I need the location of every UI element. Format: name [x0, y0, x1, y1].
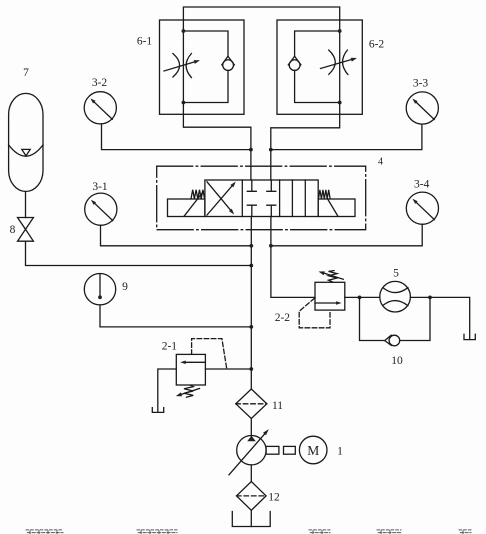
- main tank symbol: [232, 512, 270, 527]
- wire: gauge 3-3 to node B: [271, 124, 422, 150]
- svg-text:3-2: 3-2: [92, 77, 108, 89]
- spring right of valve 4: [319, 190, 331, 199]
- solenoid directional valve 4: chain-line enclosure: [157, 166, 366, 230]
- label 4: [378, 157, 383, 168]
- wire: bypass branch up-right: [400, 297, 430, 340]
- check valve in 6-1 (seat + ball): [222, 56, 235, 70]
- svg-text:2-1: 2-1: [162, 341, 178, 353]
- wire: bypass branch down-left: [360, 297, 385, 340]
- svg-text:M: M: [307, 443, 319, 458]
- variable displacement pump: [229, 429, 269, 475]
- solenoid left of valve 4: [168, 192, 205, 217]
- svg-text:11: 11: [272, 400, 283, 412]
- tank symbol right: [464, 334, 475, 339]
- junction dots 6-2: [338, 29, 342, 104]
- wire: gauge 3-2 to node A: [102, 124, 251, 150]
- wire: 2-1 outlet to tank: [158, 369, 177, 412]
- filter 11: [236, 389, 267, 419]
- pressure gauge 3-3: [406, 92, 438, 124]
- valve 4 left position: crossed arrows: [207, 182, 236, 215]
- node A junction dot: [249, 148, 253, 152]
- caption text (clipped at page bottom): [26, 530, 471, 534]
- junction dots on P line: [249, 244, 253, 371]
- wire: filter 12 suction into tank: [250, 510, 252, 526]
- label 6-2: [369, 39, 385, 51]
- wire: gauge 3-1 to P line: [101, 225, 252, 246]
- svg-text:2-2: 2-2: [275, 312, 291, 324]
- label 5: [393, 268, 399, 280]
- wire: 2-1 inlet from P line: [205, 368, 251, 370]
- check valve in 6-2 (seat + ball): [288, 56, 301, 70]
- spring of valve 2-2: [319, 271, 344, 282]
- label 3-1: [92, 181, 108, 193]
- svg-text:4: 4: [378, 157, 383, 168]
- throttle valve 6-1 (adjustable, two arcs + arrow): [164, 54, 200, 78]
- valve 4 right position: straight-through strips: [292, 180, 305, 217]
- coupling pump-motor: [266, 446, 295, 454]
- svg-text:6-1: 6-1: [137, 36, 153, 48]
- svg-text:9: 9: [122, 281, 128, 293]
- svg-text:10: 10: [391, 355, 403, 367]
- label 7: [23, 67, 29, 79]
- wire: flow meter to right tank drop: [410, 297, 469, 339]
- label 1: [337, 446, 343, 458]
- wire: 2-2 outlet to flow meter: [345, 296, 380, 298]
- one-way throttle (speed control) valve 6-2 enclosure box: [277, 20, 362, 114]
- label 3-4: [414, 179, 430, 191]
- tank symbol under valve 2-1: [152, 408, 163, 413]
- svg-text:5: 5: [393, 268, 399, 280]
- relief valve 2-1 body: [176, 354, 205, 385]
- valve 4 body: three position squares: [205, 180, 318, 217]
- pilot line (dashed) of valve 2-1: [192, 339, 227, 369]
- svg-text:7: 7: [23, 67, 29, 79]
- wire: 6-1 throttle branch vertical: [182, 31, 184, 103]
- flow meter 5: [380, 281, 411, 312]
- wire: T line from valve port down then right to valve 2-2: [271, 217, 315, 298]
- label 2-2: [275, 312, 291, 324]
- svg-text:6-2: 6-2: [369, 39, 385, 51]
- one-way throttle (speed control) valve 6-1 enclosure box: [160, 20, 245, 114]
- wire: filter 11 to pump: [250, 419, 252, 437]
- wire: gauge 9 to P line: [100, 305, 251, 327]
- svg-text:8: 8: [10, 224, 16, 236]
- svg-text:3-1: 3-1: [92, 181, 108, 193]
- svg-text:3-4: 3-4: [414, 179, 430, 191]
- label 10: [391, 355, 403, 367]
- pressure gauge 3-4: [406, 192, 438, 224]
- svg-text:3-3: 3-3: [413, 78, 429, 90]
- wire: 6-2 bottom to valve port B: [271, 103, 340, 181]
- spring of valve 2-1: [176, 385, 200, 397]
- wire: pump to filter 12: [250, 465, 252, 482]
- label 3-2: [92, 77, 108, 89]
- wire: 6-1 bottom to valve port A: [183, 103, 251, 181]
- wire: 6-2 throttle branch vertical: [339, 31, 341, 103]
- svg-text:12: 12: [268, 492, 280, 504]
- check valve 10 (seat + ball): [385, 335, 400, 346]
- shut-off valve 8: [18, 218, 34, 242]
- node B junction dot: [269, 148, 273, 152]
- wire: valve 8 to P line: [26, 241, 252, 265]
- label 12: [268, 492, 280, 504]
- label 2-1: [162, 341, 178, 353]
- pressure gauge 3-1: [85, 193, 117, 225]
- label 8: [10, 224, 16, 236]
- junction dots 6-1: [182, 29, 186, 104]
- wire: 6-1 check-valve branch: [183, 31, 228, 103]
- filter 12: [237, 482, 267, 511]
- gauge 9: [84, 274, 115, 305]
- pressure gauge 3-2: [84, 92, 116, 124]
- valve 4 centre position: blocked ports (T stubs): [247, 180, 275, 217]
- label 9: [122, 281, 128, 293]
- wire: top bridge connecting 6-1 and 6-2: [183, 7, 339, 31]
- relief valve 2-2 body: [315, 282, 345, 310]
- label 11: [272, 400, 283, 412]
- label 6-1: [137, 36, 153, 48]
- spring left of valve 4: [191, 190, 205, 199]
- solenoid right of valve 4: [318, 199, 355, 217]
- throttle valve 6-2 (adjustable, two arcs + arrow): [321, 50, 358, 74]
- junction dot on T line: [269, 244, 273, 248]
- junction dots around flow meter: [358, 296, 432, 300]
- electric motor M: [299, 436, 327, 464]
- wire: gauge 3-4 to T line: [271, 224, 422, 246]
- svg-text:1: 1: [337, 446, 343, 458]
- wire: accumulator to valve 8: [25, 192, 27, 218]
- accumulator 7: [9, 93, 43, 191]
- wire: 6-2 check-valve branch: [295, 31, 340, 103]
- pilot line (dashed) of valve 2-2: [299, 298, 330, 328]
- label 3-3: [413, 78, 429, 90]
- wire: P line from valve port down to filter 11: [250, 217, 252, 390]
